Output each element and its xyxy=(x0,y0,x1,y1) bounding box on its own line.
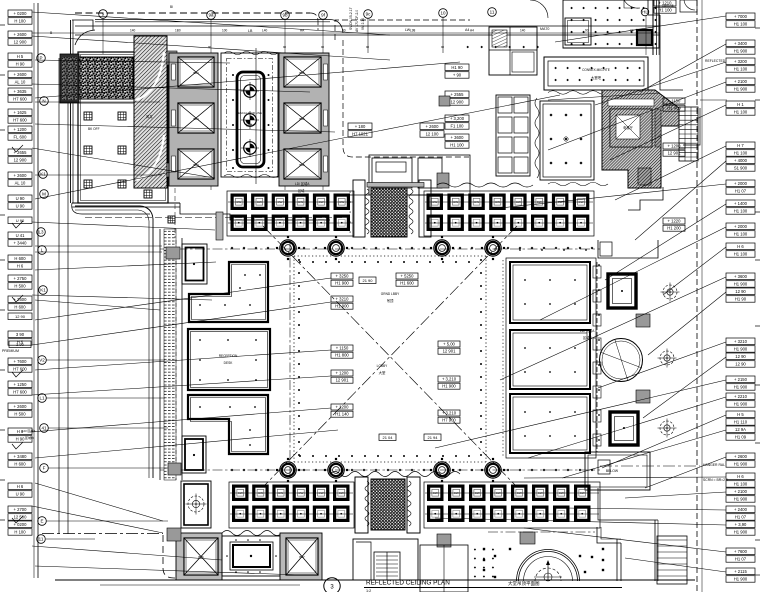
svg-text:MA70: MA70 xyxy=(540,27,549,31)
svg-text:H7 600: H7 600 xyxy=(13,367,27,372)
svg-text:V2: V2 xyxy=(39,358,45,363)
svg-text:+ 90: + 90 xyxy=(453,73,462,78)
svg-text:12 90: 12 90 xyxy=(735,354,746,359)
svg-text:+ 2555: + 2555 xyxy=(451,92,465,97)
svg-text:L40: L40 xyxy=(262,29,268,33)
svg-text:+ 3250: + 3250 xyxy=(336,273,350,278)
svg-text:U 90: U 90 xyxy=(16,204,26,209)
svg-text:U 41: U 41 xyxy=(16,233,26,238)
svg-text:BK OFF: BK OFF xyxy=(88,127,100,131)
svg-text:100: 100 xyxy=(222,29,228,33)
svg-text:11: 11 xyxy=(490,10,495,15)
svg-text:41: 41 xyxy=(41,426,47,431)
svg-text:B05: B05 xyxy=(299,117,305,121)
svg-text:B07: B07 xyxy=(299,555,305,559)
svg-text:H 7: H 7 xyxy=(737,143,744,148)
svg-text:12 100: 12 100 xyxy=(426,132,439,137)
svg-text:90: 90 xyxy=(208,45,212,49)
svg-text:H7 900: H7 900 xyxy=(442,418,456,423)
svg-text:12 901: 12 901 xyxy=(336,378,349,383)
svg-text:3 90: 3 90 xyxy=(16,342,25,347)
svg-text:+ 1150: + 1150 xyxy=(668,98,681,103)
svg-text:H1 900: H1 900 xyxy=(335,304,349,309)
svg-text:+ 1200: + 1200 xyxy=(336,370,350,375)
svg-text:BELOW: BELOW xyxy=(606,469,619,473)
svg-text:+ 2400: + 2400 xyxy=(734,507,748,512)
svg-text:F1 100: F1 100 xyxy=(450,124,464,129)
svg-text:H 5: H 5 xyxy=(17,54,24,59)
svg-text:+ 4000: + 4000 xyxy=(734,158,748,163)
svg-text:10: 10 xyxy=(440,11,446,16)
svg-text:+ 1150: + 1150 xyxy=(336,345,349,350)
svg-text:+ 1625: + 1625 xyxy=(14,110,28,115)
svg-text:H 90: H 90 xyxy=(16,62,26,67)
svg-text:+ 2000: + 2000 xyxy=(734,181,748,186)
svg-text:H 500: H 500 xyxy=(14,284,26,289)
svg-text:H1 100: H1 100 xyxy=(734,232,748,237)
svg-text:90: 90 xyxy=(321,45,325,49)
svg-text:12 90: 12 90 xyxy=(15,314,26,319)
svg-text:12 900: 12 900 xyxy=(451,100,464,105)
svg-text:H1 100: H1 100 xyxy=(734,482,748,487)
svg-text:9c: 9c xyxy=(366,12,372,17)
svg-text:H1 100: H1 100 xyxy=(734,252,748,257)
svg-text:H1 900: H1 900 xyxy=(734,347,748,352)
svg-text:H1 90: H1 90 xyxy=(735,297,747,302)
svg-text:SV.DN 05-2.17: SV.DN 05-2.17 xyxy=(349,7,353,30)
svg-text:+ 7000: + 7000 xyxy=(734,14,748,19)
svg-text:B04: B04 xyxy=(193,117,199,121)
svg-text:140: 140 xyxy=(130,29,136,33)
svg-text:H 100: H 100 xyxy=(14,530,26,535)
svg-text:H1 100: H1 100 xyxy=(734,67,748,72)
svg-text:LD/ 区域A: LD/ 区域A xyxy=(295,181,310,186)
svg-text:LD/ 区域A: LD/ 区域A xyxy=(22,428,36,433)
svg-text:H1 900: H1 900 xyxy=(734,385,748,390)
svg-text:大堂: 大堂 xyxy=(379,370,386,375)
svg-text:+ 1220: + 1220 xyxy=(668,218,682,223)
svg-text:U 90: U 90 xyxy=(16,492,26,497)
svg-text:A4: A4 xyxy=(470,29,474,33)
svg-text:AL 10: AL 10 xyxy=(15,181,26,186)
svg-text:H1 900: H1 900 xyxy=(734,530,748,535)
svg-text:H1 900: H1 900 xyxy=(734,577,748,582)
svg-text:+ 3600: + 3600 xyxy=(734,274,748,279)
svg-text:1B0: 1B0 xyxy=(175,29,181,33)
svg-text:REFLECTED CEILING PLAN: REFLECTED CEILING PLAN xyxy=(366,580,450,587)
svg-text:21 90: 21 90 xyxy=(362,278,373,283)
svg-text:H1 100: H1 100 xyxy=(734,22,748,27)
svg-text:H1 800: H1 800 xyxy=(335,353,349,358)
svg-text:H1 09: H1 09 xyxy=(735,435,747,440)
svg-text:H 6: H 6 xyxy=(17,264,24,269)
svg-text:L1: L1 xyxy=(39,396,45,401)
svg-text:H1 900: H1 900 xyxy=(734,282,748,287)
svg-text:B05: B05 xyxy=(299,163,305,167)
svg-text:B04: B04 xyxy=(193,163,199,167)
svg-text:H1 400: H1 400 xyxy=(667,106,681,111)
svg-text:H1 200: H1 200 xyxy=(667,226,681,231)
svg-text:A4: A4 xyxy=(465,28,469,32)
svg-text:H 6: H 6 xyxy=(737,474,744,479)
svg-text:+ 2210: + 2210 xyxy=(734,394,748,399)
svg-text:LB: LB xyxy=(248,29,253,33)
svg-text:21 94: 21 94 xyxy=(427,435,438,440)
svg-text:12 9A: 12 9A xyxy=(735,427,746,432)
svg-text:+ 2115: + 2115 xyxy=(734,569,747,574)
svg-text:+ 2750: + 2750 xyxy=(14,276,28,281)
svg-text:H1 07: H1 07 xyxy=(735,515,747,520)
svg-text:3 90: 3 90 xyxy=(16,332,25,337)
svg-text:+ 3,200: + 3,200 xyxy=(450,116,465,121)
svg-text:F: F xyxy=(43,466,46,471)
svg-text:+ 1210: + 1210 xyxy=(659,0,673,5)
svg-text:L98: L98 xyxy=(410,29,416,33)
svg-text:H1 100: H1 100 xyxy=(734,110,748,115)
svg-text:+ 7600: + 7600 xyxy=(14,359,28,364)
svg-text:H1 100: H1 100 xyxy=(734,209,748,214)
svg-text:吊顶: 吊顶 xyxy=(387,299,394,303)
svg-text:+ 2655: + 2655 xyxy=(14,150,28,155)
svg-text:区域: 区域 xyxy=(298,188,305,193)
svg-text:+ 2150: + 2150 xyxy=(734,377,748,382)
svg-text:+ 3200: + 3200 xyxy=(734,59,748,64)
svg-text:H1 100: H1 100 xyxy=(450,143,464,148)
svg-text:H1 100: H1 100 xyxy=(658,8,672,13)
svg-text:+ 2600: + 2600 xyxy=(14,173,28,178)
svg-text:90: 90 xyxy=(283,45,287,49)
svg-text:H1 140: H1 140 xyxy=(335,412,349,417)
svg-text:+ 3,210: + 3,210 xyxy=(442,410,457,415)
svg-text:L3: L3 xyxy=(38,230,44,235)
svg-text:大堂吊顶平面图: 大堂吊顶平面图 xyxy=(508,580,540,587)
svg-text:12 901: 12 901 xyxy=(668,151,681,156)
svg-text:REFLECTED: REFLECTED xyxy=(705,59,726,63)
svg-text:S1 900: S1 900 xyxy=(734,166,748,171)
svg-text:H7 600: H7 600 xyxy=(13,118,27,123)
svg-text:+ 2600: + 2600 xyxy=(14,32,28,37)
svg-text:H7 600: H7 600 xyxy=(13,97,27,102)
svg-text:+ 7600: + 7600 xyxy=(734,549,748,554)
svg-text:H1 110: H1 110 xyxy=(734,420,748,425)
svg-text:+ 3,90: + 3,90 xyxy=(735,522,747,527)
svg-text:HL: HL xyxy=(642,10,648,15)
svg-text:H1 100: H1 100 xyxy=(734,151,748,156)
svg-text:H1 900: H1 900 xyxy=(734,49,748,54)
svg-text:H1 600: H1 600 xyxy=(400,281,414,286)
svg-text:12 90: 12 90 xyxy=(735,362,746,367)
svg-text:M: M xyxy=(42,192,46,197)
svg-text:+ 1250: + 1250 xyxy=(14,382,28,387)
svg-text:电梯厅: 电梯厅 xyxy=(623,125,633,130)
svg-text:PREMIUM: PREMIUM xyxy=(2,349,19,353)
svg-text:H1 900: H1 900 xyxy=(734,402,748,407)
svg-text:+ 3210: + 3210 xyxy=(336,296,350,301)
svg-text:+ 1400: + 1400 xyxy=(734,201,748,206)
svg-text:U 90: U 90 xyxy=(16,196,26,201)
svg-text:+ 5250: + 5250 xyxy=(401,273,415,278)
svg-text:H1 900: H1 900 xyxy=(734,497,748,502)
svg-text:N: N xyxy=(42,99,45,104)
svg-text:90: 90 xyxy=(441,45,445,49)
svg-text:+ 1200: + 1200 xyxy=(14,127,28,132)
svg-text:H 90: H 90 xyxy=(16,437,26,442)
svg-text:ESCALATOR LINE: ESCALATOR LINE xyxy=(238,111,262,115)
svg-text:K1: K1 xyxy=(40,172,46,177)
svg-text:+ 2600: + 2600 xyxy=(426,124,440,129)
svg-text:+ 2100: + 2100 xyxy=(734,79,748,84)
svg-text:90: 90 xyxy=(585,29,589,33)
svg-text:H1 900: H1 900 xyxy=(734,462,748,467)
svg-text:+ 3210: + 3210 xyxy=(734,339,748,344)
svg-text:H 600: H 600 xyxy=(14,256,26,261)
svg-text:H 100: H 100 xyxy=(14,19,26,24)
svg-text:LOBBY: LOBBY xyxy=(377,364,389,368)
svg-text:E: E xyxy=(40,519,43,524)
svg-text:+ 3400: + 3400 xyxy=(734,41,748,46)
svg-text:+ 0200: + 0200 xyxy=(14,11,28,16)
svg-text:12 900: 12 900 xyxy=(14,158,27,163)
svg-text:+ 2600: + 2600 xyxy=(734,454,748,459)
svg-text:90: 90 xyxy=(366,45,370,49)
svg-text:11: 11 xyxy=(39,537,44,542)
svg-text:U 90: U 90 xyxy=(16,218,25,223)
svg-text:BI: BI xyxy=(170,5,173,9)
svg-text:12 90: 12 90 xyxy=(735,289,746,294)
svg-text:FL 600: FL 600 xyxy=(14,135,28,140)
svg-text:H 600: H 600 xyxy=(14,462,26,467)
svg-text:K1: K1 xyxy=(40,288,46,293)
svg-text:H 6: H 6 xyxy=(737,244,744,249)
svg-text:扶梯2: 扶梯2 xyxy=(246,122,254,127)
svg-text:21 04: 21 04 xyxy=(382,435,393,440)
svg-text:H1 07: H1 07 xyxy=(735,189,747,194)
svg-text:大堂吧: 大堂吧 xyxy=(591,75,602,80)
svg-text:+ 2700: + 2700 xyxy=(14,507,28,512)
svg-text:+ 2600: + 2600 xyxy=(14,404,28,409)
svg-text:风井: 风井 xyxy=(146,114,153,119)
svg-text:+ 3480: + 3480 xyxy=(14,454,28,459)
svg-text:+ 2100: + 2100 xyxy=(734,489,748,494)
svg-text:AV 171 CF-2.0: AV 171 CF-2.0 xyxy=(355,10,359,32)
svg-text:+ 3600: + 3600 xyxy=(451,135,465,140)
svg-text:CONNEX.MIG.HTE: CONNEX.MIG.HTE xyxy=(582,68,610,72)
svg-text:H 1: H 1 xyxy=(737,102,744,107)
svg-text:+ 180: + 180 xyxy=(355,124,366,129)
svg-text:H1 900: H1 900 xyxy=(442,384,456,389)
svg-text:H 6: H 6 xyxy=(17,484,24,489)
svg-text:+ 1200: + 1200 xyxy=(668,143,682,148)
svg-text:HANGER RAL: HANGER RAL xyxy=(703,463,725,467)
svg-text:140: 140 xyxy=(520,29,526,33)
svg-text:H 600: H 600 xyxy=(14,305,26,310)
svg-text:+ 2000: + 2000 xyxy=(734,224,748,229)
svg-text:GRND LBBY: GRND LBBY xyxy=(381,292,400,296)
svg-text:+ 3440: + 3440 xyxy=(14,241,28,246)
svg-text:+ 3,210: + 3,210 xyxy=(442,376,457,381)
svg-text:+ 1200: + 1200 xyxy=(336,404,350,409)
svg-text:+ 2600: + 2600 xyxy=(14,72,28,77)
svg-text:+ 3635: + 3635 xyxy=(14,89,28,94)
svg-text:12 901: 12 901 xyxy=(443,349,456,354)
svg-text:12 900: 12 900 xyxy=(14,40,27,45)
svg-text:H1 90: H1 90 xyxy=(451,65,463,70)
svg-text:H 5: H 5 xyxy=(737,412,744,417)
svg-text:LW: LW xyxy=(405,28,411,32)
svg-text:H1 900: H1 900 xyxy=(734,87,748,92)
svg-text:SCRN = BR=2.0: SCRN = BR=2.0 xyxy=(703,478,728,482)
svg-text:B05: B05 xyxy=(299,71,305,75)
svg-text:H 500: H 500 xyxy=(14,412,26,417)
svg-text:B04: B04 xyxy=(193,71,199,75)
svg-text:H1 900: H1 900 xyxy=(335,281,349,286)
svg-text:H7 600: H7 600 xyxy=(13,390,27,395)
svg-text:区域M: 区域M xyxy=(25,435,34,440)
svg-text:DESK: DESK xyxy=(224,361,234,365)
svg-text:AL 10: AL 10 xyxy=(15,80,26,85)
svg-text:H1 07: H1 07 xyxy=(735,557,747,562)
svg-text:+ 5,00: + 5,00 xyxy=(443,341,455,346)
